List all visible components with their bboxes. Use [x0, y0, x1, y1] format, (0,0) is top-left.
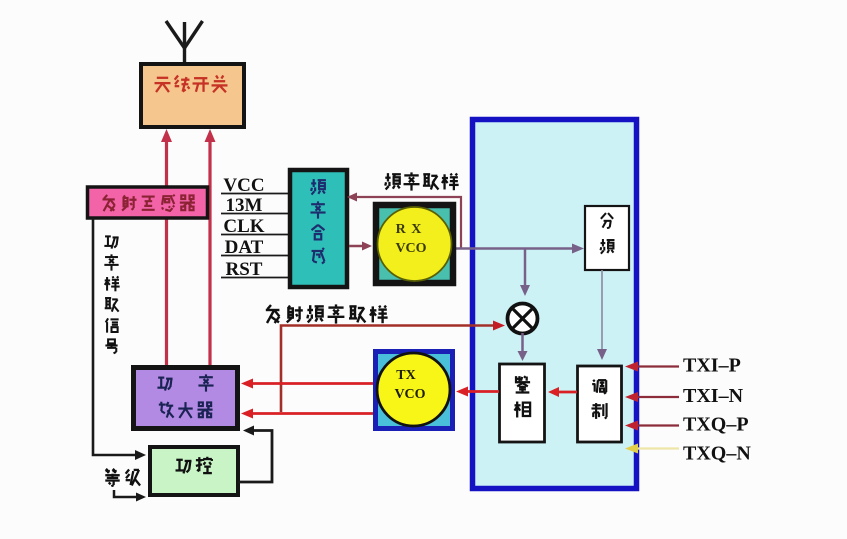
- svg-text:RST: RST: [226, 259, 263, 280]
- svg-text:R X: R X: [396, 222, 423, 237]
- svg-text:13M: 13M: [226, 195, 263, 216]
- svg-text:TXI–P: TXI–P: [683, 355, 741, 377]
- svg-text:CLK: CLK: [223, 216, 264, 237]
- svg-text:VCO: VCO: [394, 387, 425, 402]
- svg-text:VCC: VCC: [223, 175, 264, 196]
- svg-text:TXQ–N: TXQ–N: [683, 443, 751, 465]
- svg-text:TX: TX: [396, 368, 415, 383]
- svg-text:TXI–N: TXI–N: [683, 385, 744, 407]
- svg-text:TXQ–P: TXQ–P: [683, 414, 749, 436]
- svg-text:VCO: VCO: [395, 241, 426, 256]
- svg-text:DAT: DAT: [225, 237, 264, 258]
